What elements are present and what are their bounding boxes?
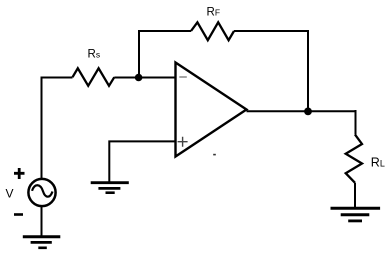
svg-text:RF: RF xyxy=(207,7,221,19)
svg-text:Rs: Rs xyxy=(88,48,101,60)
stray dot mark xyxy=(213,154,216,156)
op-amp U1 triangle xyxy=(176,63,247,157)
wire: RL to ground xyxy=(354,183,356,208)
source plus sign xyxy=(14,168,25,179)
resistor RL xyxy=(346,135,362,183)
wire: RF down to output node xyxy=(234,31,308,111)
wire: left vertical from source V up to input corner xyxy=(41,78,43,179)
wire: source bottom to ground xyxy=(41,206,43,237)
ground under RL xyxy=(331,208,381,221)
wire: horizontal from corner to resistor Rs xyxy=(41,77,73,79)
wire: right corner down to RL xyxy=(355,110,357,135)
svg-text:V: V xyxy=(6,187,14,201)
svg-text:RL: RL xyxy=(371,156,385,170)
ground under non-inverting input xyxy=(91,183,129,193)
wire: non-inverting input to left xyxy=(109,141,175,182)
source minus sign xyxy=(14,213,23,216)
op-amp inverting input minus sign xyxy=(179,76,187,78)
ground under source V xyxy=(23,237,61,248)
source V circle xyxy=(28,179,55,206)
node: inverting input junction dot xyxy=(135,74,143,82)
resistor Rs xyxy=(73,68,115,86)
wire: node up and over to resistor RF xyxy=(139,31,191,78)
wire: Rs to op-amp inverting input xyxy=(114,77,175,79)
source V sine wave xyxy=(32,185,53,196)
wire: op-amp output to right corner xyxy=(247,110,356,112)
resistor RF xyxy=(191,22,234,40)
op-amp non-inverting input plus sign xyxy=(178,137,188,147)
node: output junction dot xyxy=(304,108,312,116)
